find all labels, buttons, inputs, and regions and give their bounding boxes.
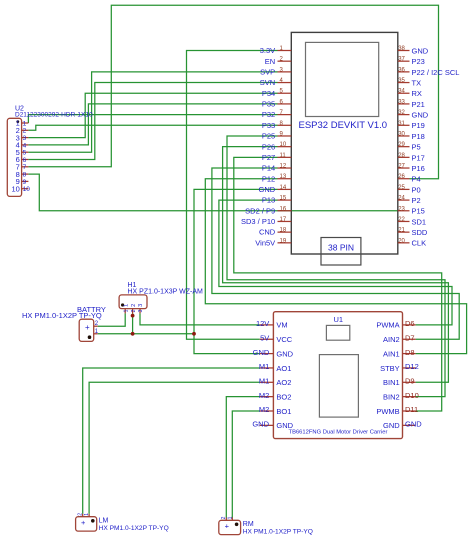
- wire net M2 BO2 to RM: [226, 397, 259, 518]
- svg-text:12: 12: [280, 164, 287, 170]
- svg-text:34: 34: [398, 89, 405, 95]
- svg-text:PWMA: PWMA: [376, 321, 399, 330]
- svg-text:10: 10: [11, 184, 19, 193]
- motor driver U1 TB6612FNG Dual Motor Driver Carrier: [252, 312, 422, 439]
- wire net P32: ESP32 pin7 to U2 pin1: [28, 115, 277, 123]
- svg-text:P33: P33: [262, 121, 275, 130]
- svg-text:5V: 5V: [260, 333, 269, 342]
- svg-text:GND: GND: [259, 185, 276, 194]
- svg-text:M2: M2: [259, 391, 269, 400]
- svg-text:P18: P18: [412, 132, 425, 141]
- svg-text:AIN1: AIN1: [383, 349, 400, 358]
- svg-text:CLK: CLK: [412, 239, 427, 248]
- svg-text:HX PM1.0-1X2P TP-YQ: HX PM1.0-1X2P TP-YQ: [22, 311, 102, 320]
- svg-text:1: 1: [23, 120, 27, 127]
- wire net D6: ESP32 P13 to driver PWMA: [219, 200, 452, 325]
- svg-text:1: 1: [123, 304, 129, 307]
- svg-text:P19: P19: [412, 121, 425, 130]
- svg-text:+: +: [81, 518, 86, 527]
- wire net D9: ESP32 P26 to driver BIN1: [223, 147, 449, 383]
- wire net SVN: ESP32 pin4 to U2 pin6: [28, 83, 277, 160]
- svg-text:GND: GND: [412, 111, 429, 120]
- svg-text:9: 9: [23, 179, 27, 186]
- svg-text:D6: D6: [405, 319, 415, 328]
- svg-text:AIN2: AIN2: [383, 335, 400, 344]
- svg-text:VCC: VCC: [276, 335, 292, 344]
- wire net D11: ESP32 P27 to driver PWMB: [234, 157, 442, 411]
- svg-text:HX PM1.0-1X2P TP-YQ: HX PM1.0-1X2P TP-YQ: [243, 528, 313, 535]
- wire net 12V: H1 pin3 to driver VM: [140, 313, 260, 325]
- svg-text:P17: P17: [412, 153, 425, 162]
- svg-text:3.3V: 3.3V: [260, 46, 275, 55]
- svg-text:GND: GND: [405, 420, 422, 429]
- svg-text:TB6612FNG Dual Motor Driver Ca: TB6612FNG Dual Motor Driver Carrier: [289, 429, 388, 435]
- svg-text:SD1: SD1: [412, 217, 427, 226]
- svg-text:BIN2: BIN2: [383, 392, 400, 401]
- svg-text:35: 35: [398, 78, 405, 84]
- wire net M1 AO2 to LM: [89, 382, 260, 514]
- svg-text:14: 14: [280, 185, 287, 191]
- svg-text:3: 3: [138, 309, 144, 312]
- svg-text:16: 16: [280, 206, 287, 212]
- junction H1 pin2 node: [131, 314, 135, 318]
- svg-text:U1: U1: [334, 315, 344, 324]
- svg-text:31: 31: [398, 121, 405, 127]
- svg-text:GND: GND: [276, 349, 293, 358]
- wire net GND: ESP32 pin14 to battery row and driver GND: [194, 189, 278, 353]
- svg-text:6: 6: [23, 157, 27, 164]
- svg-text:11: 11: [280, 153, 287, 159]
- svg-text:AO2: AO2: [276, 378, 291, 387]
- motor connector RM HX PM1.0-1X2P TP-YQ: [219, 516, 313, 535]
- svg-text:32: 32: [398, 110, 405, 116]
- svg-text:P4: P4: [412, 175, 421, 184]
- svg-text:5: 5: [23, 150, 27, 157]
- svg-text:+: +: [225, 521, 230, 530]
- wire net M2 BO1 to RM: [232, 411, 259, 518]
- svg-text:7: 7: [23, 164, 27, 171]
- svg-text:P34: P34: [262, 89, 275, 98]
- header U2 D21122300292-HDR-1X10: [7, 106, 93, 197]
- svg-text:D8: D8: [405, 348, 415, 357]
- svg-text:21: 21: [398, 228, 405, 234]
- svg-text:23: 23: [398, 206, 405, 212]
- wire net 5V: ESP32 pin1 3.3V to driver VCC: [187, 51, 278, 340]
- svg-text:SDD: SDD: [412, 228, 428, 237]
- svg-text:M1: M1: [259, 362, 269, 371]
- svg-text:33: 33: [398, 99, 405, 105]
- svg-text:24: 24: [398, 196, 405, 202]
- svg-text:29: 29: [398, 142, 405, 148]
- wire battery plus to H1 pin1: [98, 313, 126, 326]
- wire net D7: ESP32 P14 to driver AIN2: [212, 168, 459, 339]
- wire net P35: ESP32 pin6 to U2 pin4: [28, 104, 277, 145]
- svg-text:26: 26: [398, 174, 405, 180]
- svg-text:M2: M2: [259, 405, 269, 414]
- svg-text:SD3 / P10: SD3 / P10: [241, 217, 275, 226]
- svg-text:4: 4: [23, 142, 27, 149]
- svg-text:GND: GND: [412, 46, 429, 55]
- wire net P33: ESP32 pin8 to U2 pin2: [28, 125, 277, 130]
- svg-text:P35: P35: [262, 100, 275, 109]
- svg-text:30: 30: [398, 131, 405, 137]
- svg-text:D10: D10: [405, 391, 419, 400]
- svg-text:D11: D11: [405, 405, 418, 414]
- wire net M1 AO1 to LM: [83, 368, 260, 514]
- wire net SD2/P9-P15: U2 pin8 to ESP32 pins 16 and 23: [28, 174, 397, 211]
- svg-text:28: 28: [398, 153, 405, 159]
- svg-text:27: 27: [398, 164, 405, 170]
- svg-text:P27: P27: [262, 153, 275, 162]
- svg-text:38 PIN: 38 PIN: [328, 243, 354, 253]
- svg-text:P15: P15: [412, 207, 425, 216]
- svg-text:1: 1: [84, 513, 90, 516]
- svg-text:CND: CND: [259, 228, 276, 237]
- svg-text:STBY: STBY: [380, 364, 400, 373]
- svg-text:TX: TX: [412, 78, 422, 87]
- svg-text:GND: GND: [252, 420, 269, 429]
- wire net D10: ESP32 P25 to driver BIN2: [227, 136, 445, 397]
- svg-text:Vin5V: Vin5V: [255, 238, 275, 247]
- wire net SVP: ESP32 pin3 to U2 pin5: [28, 72, 277, 152]
- svg-text:D12: D12: [405, 362, 419, 371]
- svg-text:P26: P26: [262, 142, 275, 151]
- ESP32 DEVKIT V1.0 module 38 PIN: [241, 32, 459, 265]
- svg-text:20: 20: [398, 238, 405, 244]
- svg-text:P25: P25: [262, 132, 275, 141]
- svg-text:M1: M1: [259, 377, 269, 386]
- svg-text:1: 1: [123, 309, 129, 312]
- wire net P4: ESP32 pin26 over top to U2 pin7: [28, 5, 438, 179]
- svg-text:PWMB: PWMB: [376, 407, 399, 416]
- svg-text:SD2 / P9: SD2 / P9: [245, 206, 275, 215]
- svg-text:+: +: [85, 323, 90, 332]
- svg-text:2: 2: [23, 128, 27, 135]
- svg-text:GND: GND: [253, 348, 270, 357]
- junction GND node at battery row: [192, 332, 196, 336]
- svg-text:13: 13: [280, 174, 287, 180]
- svg-text:P14: P14: [262, 164, 275, 173]
- svg-text:22: 22: [398, 217, 405, 223]
- svg-text:2: 2: [78, 513, 84, 516]
- svg-text:17: 17: [280, 217, 287, 223]
- svg-text:19: 19: [280, 238, 287, 244]
- svg-text:LM: LM: [99, 518, 109, 525]
- svg-text:P23: P23: [412, 57, 425, 66]
- svg-text:P13: P13: [262, 196, 275, 205]
- svg-text:GND: GND: [276, 421, 293, 430]
- svg-text:2: 2: [131, 309, 137, 312]
- svg-text:8: 8: [23, 172, 27, 179]
- svg-text:P5: P5: [412, 143, 421, 152]
- svg-text:P2: P2: [412, 196, 421, 205]
- svg-text:RX: RX: [412, 89, 422, 98]
- svg-text:HX PZ1.0-1X3P WZ-AM: HX PZ1.0-1X3P WZ-AM: [128, 289, 204, 296]
- svg-text:2: 2: [131, 304, 137, 307]
- svg-text:ESP32 DEVKIT V1.0: ESP32 DEVKIT V1.0: [299, 120, 388, 131]
- svg-text:AO1: AO1: [276, 364, 291, 373]
- svg-text:GND: GND: [383, 421, 400, 430]
- svg-text:38: 38: [398, 46, 405, 52]
- svg-text:3: 3: [23, 135, 27, 142]
- wire net D8: ESP32 P12 to driver AIN1: [205, 179, 466, 354]
- svg-text:P0: P0: [412, 185, 421, 194]
- svg-text:10: 10: [23, 186, 31, 193]
- svg-text:RM: RM: [243, 521, 254, 528]
- wire net P34: ESP32 pin5 to U2 pin3: [28, 93, 277, 137]
- junction GND node at H1: [131, 332, 135, 336]
- svg-text:P21: P21: [412, 100, 425, 109]
- svg-text:D9: D9: [405, 377, 415, 386]
- svg-text:36: 36: [398, 67, 405, 73]
- svg-text:EN: EN: [265, 57, 275, 66]
- battery connector BATTRY HX PM1.0-1X2P TP-YQ: [22, 305, 106, 342]
- svg-text:BO1: BO1: [276, 407, 291, 416]
- svg-text:P12: P12: [262, 174, 275, 183]
- motor connector LM HX PM1.0-1X2P TP-YQ: [76, 513, 169, 532]
- svg-text:VM: VM: [276, 321, 287, 330]
- wire H1 pin2 down to GND row: [132, 313, 134, 333]
- svg-text:HX PM1.0-1X2P TP-YQ: HX PM1.0-1X2P TP-YQ: [99, 525, 169, 532]
- svg-text:SVN: SVN: [260, 78, 275, 87]
- svg-text:12V: 12V: [256, 319, 269, 328]
- svg-text:2: 2: [221, 516, 227, 519]
- svg-text:D21122300292-HDR-1X10: D21122300292-HDR-1X10: [15, 112, 93, 119]
- svg-text:P16: P16: [412, 164, 425, 173]
- svg-text:25: 25: [398, 185, 405, 191]
- svg-text:D7: D7: [405, 333, 415, 342]
- svg-text:BO2: BO2: [276, 392, 291, 401]
- svg-text:BIN1: BIN1: [383, 378, 400, 387]
- svg-text:15: 15: [280, 196, 287, 202]
- svg-text:1: 1: [228, 516, 234, 519]
- svg-text:P22 / I2C SCL: P22 / I2C SCL: [412, 68, 460, 77]
- svg-text:P32: P32: [262, 110, 275, 119]
- connector H1 HX PZ1.0-1X3P WZ-AM: [119, 282, 203, 313]
- svg-text:3: 3: [138, 304, 144, 307]
- svg-text:18: 18: [280, 228, 287, 234]
- wire net GND battery branch: battery pin1 to junction: [98, 333, 194, 335]
- svg-text:10: 10: [280, 142, 287, 148]
- svg-text:SVP: SVP: [260, 67, 275, 76]
- svg-text:37: 37: [398, 57, 405, 63]
